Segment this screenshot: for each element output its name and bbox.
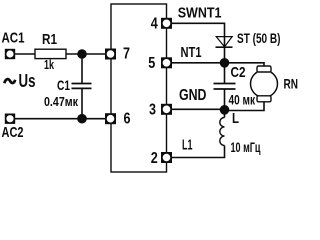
svg-text:2: 2 [151, 150, 158, 167]
wire diode cathode to C2 top [224, 47, 226, 84]
wire node to motor RN top [225, 63, 265, 67]
svg-text:ST (50 B): ST (50 B) [237, 30, 281, 46]
wire pin 4 to diode top [170, 23, 225, 47]
wire C2 bottom to node L [224, 89, 226, 118]
junction node at R1/C1 [77, 49, 87, 59]
junction node L [220, 105, 230, 115]
wire C1 top lead [81, 54, 83, 83]
pin 7 terminal [105, 49, 116, 60]
wire AC2 to pin 6 [13, 118, 107, 120]
svg-text:10 мГц: 10 мГц [231, 139, 261, 155]
svg-text:4: 4 [151, 15, 158, 32]
svg-text:RN: RN [284, 76, 299, 92]
svg-text:40 мк: 40 мк [229, 92, 256, 108]
svg-text:C2: C2 [231, 64, 246, 81]
capacitor C1 [72, 84, 92, 89]
resistor R1 [35, 49, 66, 58]
svg-text:0.47мк: 0.47мк [44, 94, 78, 109]
inductor L coil [220, 118, 225, 146]
capacitor C2 [214, 84, 236, 90]
svg-text:Us: Us [19, 71, 36, 91]
terminal AC1 [5, 49, 15, 59]
wire AC1 to R1 [13, 53, 35, 55]
svg-text:L1: L1 [182, 137, 193, 154]
svg-text:AC2: AC2 [2, 124, 24, 141]
svg-text:R1: R1 [42, 31, 57, 48]
svg-text:5: 5 [148, 55, 155, 72]
svg-text:1k: 1k [44, 57, 55, 72]
diode ST [216, 37, 233, 48]
svg-text:NT1: NT1 [181, 44, 202, 61]
junction node at AC2/C1 [77, 114, 87, 124]
wire pin 5 to node C2 [170, 62, 225, 64]
svg-text:AC1: AC1 [2, 29, 25, 46]
svg-text:L: L [232, 110, 239, 127]
pin 5 terminal [161, 57, 172, 68]
wire pin 3 to node L [170, 108, 225, 110]
junction node C2 top [220, 58, 230, 68]
svg-text:GND: GND [179, 87, 207, 104]
svg-text:SWNT1: SWNT1 [178, 4, 222, 21]
svg-text:C1: C1 [57, 77, 70, 93]
pin 6 terminal [105, 113, 116, 124]
pin 2 terminal [161, 152, 172, 163]
svg-text:3: 3 [149, 101, 156, 118]
IC U1 body [111, 4, 167, 172]
wire motor RN bottom to node L [225, 102, 265, 111]
wire R1 to pin 7 [66, 53, 107, 55]
pin 3 terminal [161, 104, 172, 115]
source label ~ Us [4, 79, 15, 83]
svg-text:7: 7 [123, 46, 130, 63]
motor RN [251, 66, 278, 102]
wire C1 bottom lead [81, 89, 83, 119]
pin 4 terminal [161, 18, 172, 29]
wire coil bottom to pin 2 [170, 146, 225, 158]
terminal AC2 [5, 114, 15, 124]
svg-text:6: 6 [124, 110, 131, 127]
